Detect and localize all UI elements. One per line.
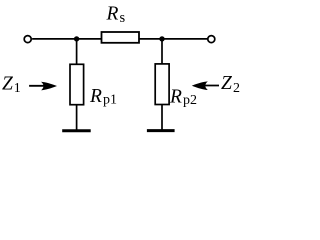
svg-text:R: R (106, 4, 119, 25)
ground right (147, 129, 175, 132)
terminal port right (208, 36, 215, 43)
wire left vertical lower (76, 105, 78, 131)
svg-text:s: s (120, 10, 126, 26)
resistor Rp2 body (155, 64, 169, 105)
svg-text:p1: p1 (103, 93, 117, 108)
arrow Z2 pointing left (192, 81, 219, 90)
wire right vertical upper (161, 39, 163, 64)
svg-text:Z: Z (2, 73, 13, 94)
resistor Rp1 body (70, 64, 84, 104)
node junction dot right (159, 36, 164, 41)
terminal port left (24, 36, 31, 43)
node junction dot left (74, 36, 79, 41)
wire left vertical upper (76, 39, 78, 64)
wire top-right horizontal (139, 38, 208, 40)
ground left (62, 129, 90, 132)
wire right vertical lower (161, 105, 163, 131)
svg-text:Z: Z (221, 73, 232, 94)
svg-text:1: 1 (14, 81, 21, 96)
svg-text:R: R (169, 87, 182, 108)
svg-text:p2: p2 (183, 93, 197, 108)
resistor Rs body (102, 32, 140, 43)
svg-text:2: 2 (233, 81, 240, 96)
svg-text:R: R (89, 86, 102, 107)
arrow Z1 pointing right (29, 82, 57, 91)
wire top-left horizontal (32, 38, 101, 40)
